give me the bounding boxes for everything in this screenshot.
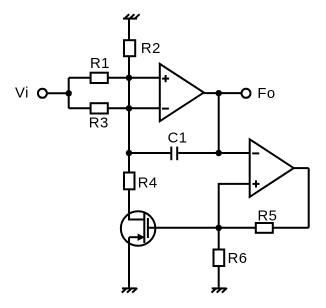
svg-text:R1: R1 xyxy=(90,56,110,72)
wire Vi to input node xyxy=(48,92,69,94)
resistor R4 xyxy=(124,173,135,190)
transistor Q1 xyxy=(121,211,156,246)
node R1 row / R2 xyxy=(126,75,132,81)
node C1 right xyxy=(216,150,222,156)
resistor R6 xyxy=(214,250,225,267)
wire transistor source to ground xyxy=(128,237,130,288)
terminal Fo xyxy=(242,89,251,98)
wire R4 to transistor drain xyxy=(129,189,144,219)
svg-text:Fo: Fo xyxy=(257,86,275,102)
wire R3 to op-amp minus xyxy=(108,107,160,109)
terminal Vi xyxy=(38,89,47,98)
node C1 left xyxy=(126,150,132,156)
wire U2 plus input to node xyxy=(219,184,250,228)
node R3 row xyxy=(126,105,132,111)
wire node to R6 xyxy=(218,228,220,250)
capacitor C1 xyxy=(171,147,177,161)
ground bottom left xyxy=(122,288,137,293)
ground bottom right xyxy=(212,288,227,293)
svg-text:R4: R4 xyxy=(138,176,158,192)
wire to R3 left xyxy=(69,107,91,109)
node gate / R5 / R6 xyxy=(216,225,222,231)
svg-text:Vi: Vi xyxy=(15,86,29,102)
svg-text:R6: R6 xyxy=(228,251,248,267)
wire C1 to op-amp U2 minus xyxy=(178,152,250,154)
node input junction xyxy=(66,90,72,96)
resistor R5 xyxy=(256,223,273,233)
node output xyxy=(216,90,222,96)
svg-text:R3: R3 xyxy=(89,116,109,132)
wire output node down to C1 node xyxy=(218,93,220,153)
ground top xyxy=(123,14,140,19)
wire C1 node left xyxy=(129,152,170,154)
wire to R1 left xyxy=(69,77,91,79)
wire U2 output to feedback xyxy=(294,167,309,169)
wire feedback vertical xyxy=(308,168,310,228)
svg-text:R5: R5 xyxy=(258,209,278,225)
wire top ground to R2 xyxy=(128,19,130,41)
resistor R3 xyxy=(91,103,108,113)
wire R6 to ground xyxy=(218,266,220,288)
resistor R2 xyxy=(124,40,135,56)
wire op-amp output to Fo xyxy=(204,92,242,94)
op-amp U2 xyxy=(250,139,294,197)
wire node to R4 xyxy=(128,153,130,173)
wire input split vertical xyxy=(68,78,70,109)
wire transistor gate to R5 row xyxy=(148,227,256,229)
wire R1 to op-amp plus xyxy=(108,77,160,79)
resistor R1 xyxy=(91,73,108,83)
wire R2 down to C1 node xyxy=(128,56,130,153)
svg-text:R2: R2 xyxy=(141,41,161,57)
op-amp U1 xyxy=(160,64,204,121)
wire R5 to feedback corner xyxy=(273,227,309,229)
svg-text:C1: C1 xyxy=(168,130,188,146)
